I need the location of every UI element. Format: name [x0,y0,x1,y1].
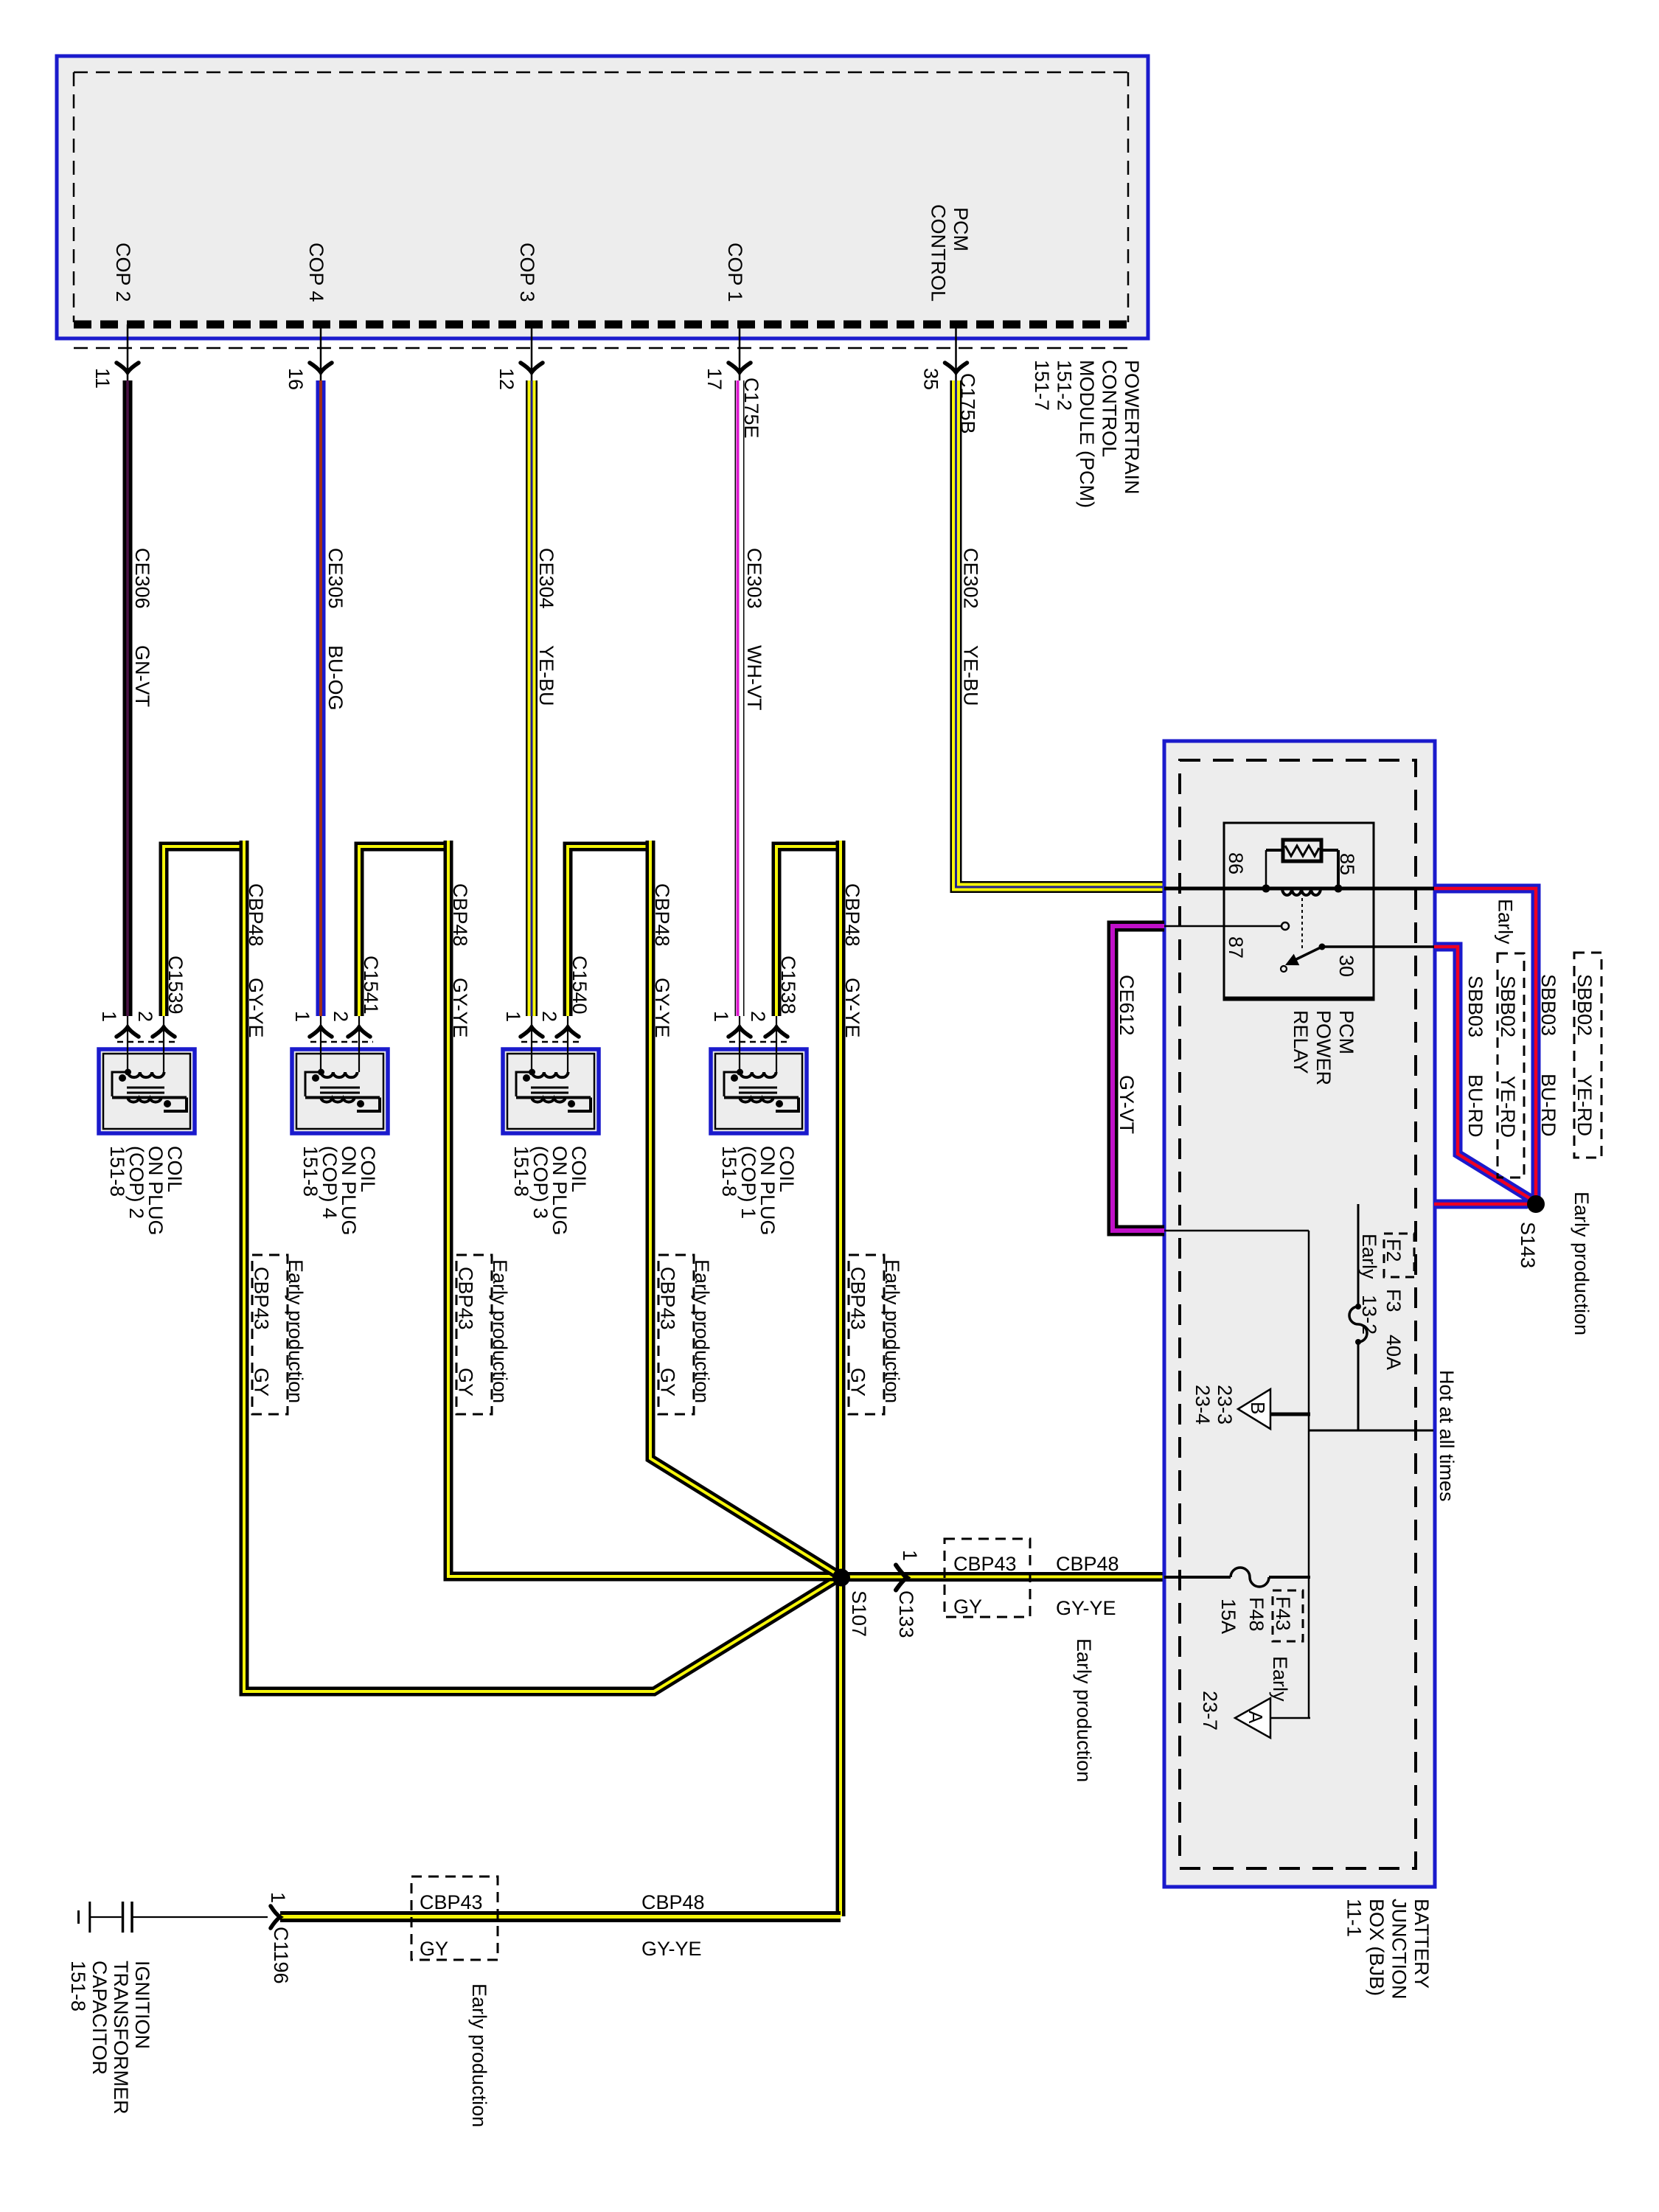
svg-text:Early production: Early production [881,1259,903,1403]
svg-text:23-4: 23-4 [1192,1385,1214,1425]
svg-text:S143: S143 [1517,1222,1539,1268]
svg-text:C1539: C1539 [164,956,187,1015]
svg-text:C1541: C1541 [360,956,382,1015]
svg-text:CBP43: CBP43 [847,1267,869,1330]
svg-text:GN-VT: GN-VT [131,645,153,707]
svg-text:C1538: C1538 [777,956,799,1015]
svg-text:1: 1 [291,1011,313,1022]
svg-text:CBP43: CBP43 [953,1553,1017,1575]
svg-text:12: 12 [495,368,518,390]
svg-text:86: 86 [1225,852,1247,874]
svg-text:CE304: CE304 [535,548,557,609]
svg-text:GY: GY [847,1368,869,1397]
svg-text:COP 4: COP 4 [305,243,327,302]
svg-text:CBP43: CBP43 [657,1267,679,1330]
svg-text:Early: Early [1495,899,1517,945]
svg-text:PCM: PCM [950,207,972,251]
svg-text:CBP48: CBP48 [641,1891,705,1913]
svg-text:85: 85 [1336,853,1358,875]
svg-text:BU-OG: BU-OG [324,645,347,711]
svg-text:YE-BU: YE-BU [535,645,557,706]
svg-text:1: 1 [98,1011,120,1022]
svg-text:YE-RD: YE-RD [1573,1074,1596,1136]
svg-text:SBB03: SBB03 [1464,975,1486,1037]
svg-text:C133: C133 [895,1590,917,1638]
svg-text:GY-VT: GY-VT [1116,1075,1138,1134]
svg-text:C1196: C1196 [270,1927,292,1984]
svg-text:F2: F2 [1382,1239,1405,1262]
svg-text:BATTERY: BATTERY [1411,1899,1433,1989]
svg-text:GY-YE: GY-YE [1056,1597,1116,1619]
svg-text:CBP43: CBP43 [455,1267,477,1330]
svg-text:11: 11 [91,368,114,389]
svg-text:B: B [1247,1402,1269,1414]
svg-text:Early production: Early production [285,1259,307,1403]
svg-text:1: 1 [502,1011,524,1022]
svg-text:CBP43: CBP43 [251,1267,273,1330]
svg-text:Early production: Early production [1571,1192,1593,1335]
svg-text:23-3: 23-3 [1214,1385,1236,1425]
svg-text:A: A [1245,1711,1267,1724]
svg-text:MODULE (PCM): MODULE (PCM) [1076,360,1098,508]
svg-text:CE306: CE306 [131,548,153,609]
svg-text:PCM: PCM [1335,1010,1357,1054]
svg-text:BOX (BJB): BOX (BJB) [1366,1899,1388,1996]
svg-text:F3: F3 [1382,1289,1405,1312]
svg-text:Early: Early [1358,1234,1380,1279]
svg-text:1: 1 [710,1011,732,1022]
svg-text:Early production: Early production [1073,1638,1095,1782]
svg-text:Hot at all times: Hot at all times [1436,1370,1458,1502]
svg-text:11-1: 11-1 [1343,1899,1366,1937]
svg-text:POWER: POWER [1312,1010,1335,1085]
svg-text:151-8: 151-8 [106,1146,128,1197]
svg-text:CE612: CE612 [1116,975,1138,1036]
svg-text:13-2: 13-2 [1358,1295,1380,1335]
svg-text:Early production: Early production [691,1259,713,1403]
svg-text:TRANSFORMER: TRANSFORMER [110,1961,132,2115]
svg-text:151-8: 151-8 [718,1146,740,1197]
svg-text:GY: GY [251,1368,273,1397]
svg-text:GY-YE: GY-YE [641,1938,702,1960]
svg-text:F43: F43 [1272,1596,1294,1631]
svg-text:151-8: 151-8 [510,1146,532,1197]
svg-text:CBP48: CBP48 [1056,1553,1119,1575]
svg-text:16: 16 [285,368,307,390]
svg-text:151-8: 151-8 [67,1961,89,2011]
svg-text:COP 3: COP 3 [516,243,538,302]
svg-text:S107: S107 [848,1590,870,1637]
svg-text:Early: Early [1269,1656,1291,1702]
svg-text:YE-BU: YE-BU [960,645,982,706]
svg-text:SBB02: SBB02 [1573,974,1596,1036]
svg-text:GY: GY [420,1938,448,1960]
svg-text:BU-RD: BU-RD [1464,1074,1486,1138]
svg-text:35: 35 [920,368,942,390]
svg-text:BU-RD: BU-RD [1537,1074,1559,1137]
svg-text:Early production: Early production [468,1983,490,2127]
svg-text:2: 2 [134,1011,156,1022]
svg-text:COP 1: COP 1 [724,243,746,302]
svg-text:CE305: CE305 [324,548,347,609]
svg-text:1: 1 [267,1892,289,1903]
svg-text:IGNITION: IGNITION [131,1961,153,2049]
svg-text:SBB03: SBB03 [1537,974,1559,1036]
svg-text:YE-RD: YE-RD [1497,1076,1519,1138]
svg-text:JUNCTION: JUNCTION [1388,1899,1411,2000]
svg-text:WH-VT: WH-VT [743,645,765,710]
svg-text:POWERTRAIN: POWERTRAIN [1121,360,1143,495]
svg-text:CE302: CE302 [960,548,982,609]
svg-text:151-7: 151-7 [1031,360,1053,411]
svg-text:GY: GY [455,1368,477,1397]
svg-text:CONTROL: CONTROL [1099,360,1121,457]
svg-text:C1540: C1540 [568,956,591,1015]
svg-text:COP 2: COP 2 [112,243,134,302]
svg-text:2: 2 [330,1011,352,1022]
svg-text:40A: 40A [1382,1335,1405,1370]
svg-text:CBP43: CBP43 [420,1891,483,1913]
svg-text:2: 2 [747,1011,769,1022]
svg-text:GY: GY [953,1596,982,1618]
svg-text:87: 87 [1225,936,1247,959]
svg-text:CE303: CE303 [743,548,765,609]
svg-text:30: 30 [1335,955,1357,977]
svg-text:GY: GY [657,1368,679,1397]
svg-text:151-8: 151-8 [299,1146,321,1197]
svg-text:RELAY: RELAY [1290,1010,1312,1074]
svg-text:SBB02: SBB02 [1497,975,1519,1037]
svg-text:1: 1 [899,1550,921,1561]
svg-text:F48: F48 [1245,1597,1267,1632]
svg-text:CAPACITOR: CAPACITOR [88,1961,111,2075]
svg-text:151-2: 151-2 [1054,360,1076,411]
svg-text:CONTROL: CONTROL [928,204,950,302]
svg-text:Early production: Early production [489,1259,511,1403]
svg-text:23-7: 23-7 [1199,1691,1221,1731]
svg-text:2: 2 [538,1011,560,1022]
svg-text:15A: 15A [1217,1599,1239,1634]
svg-text:17: 17 [703,368,726,390]
